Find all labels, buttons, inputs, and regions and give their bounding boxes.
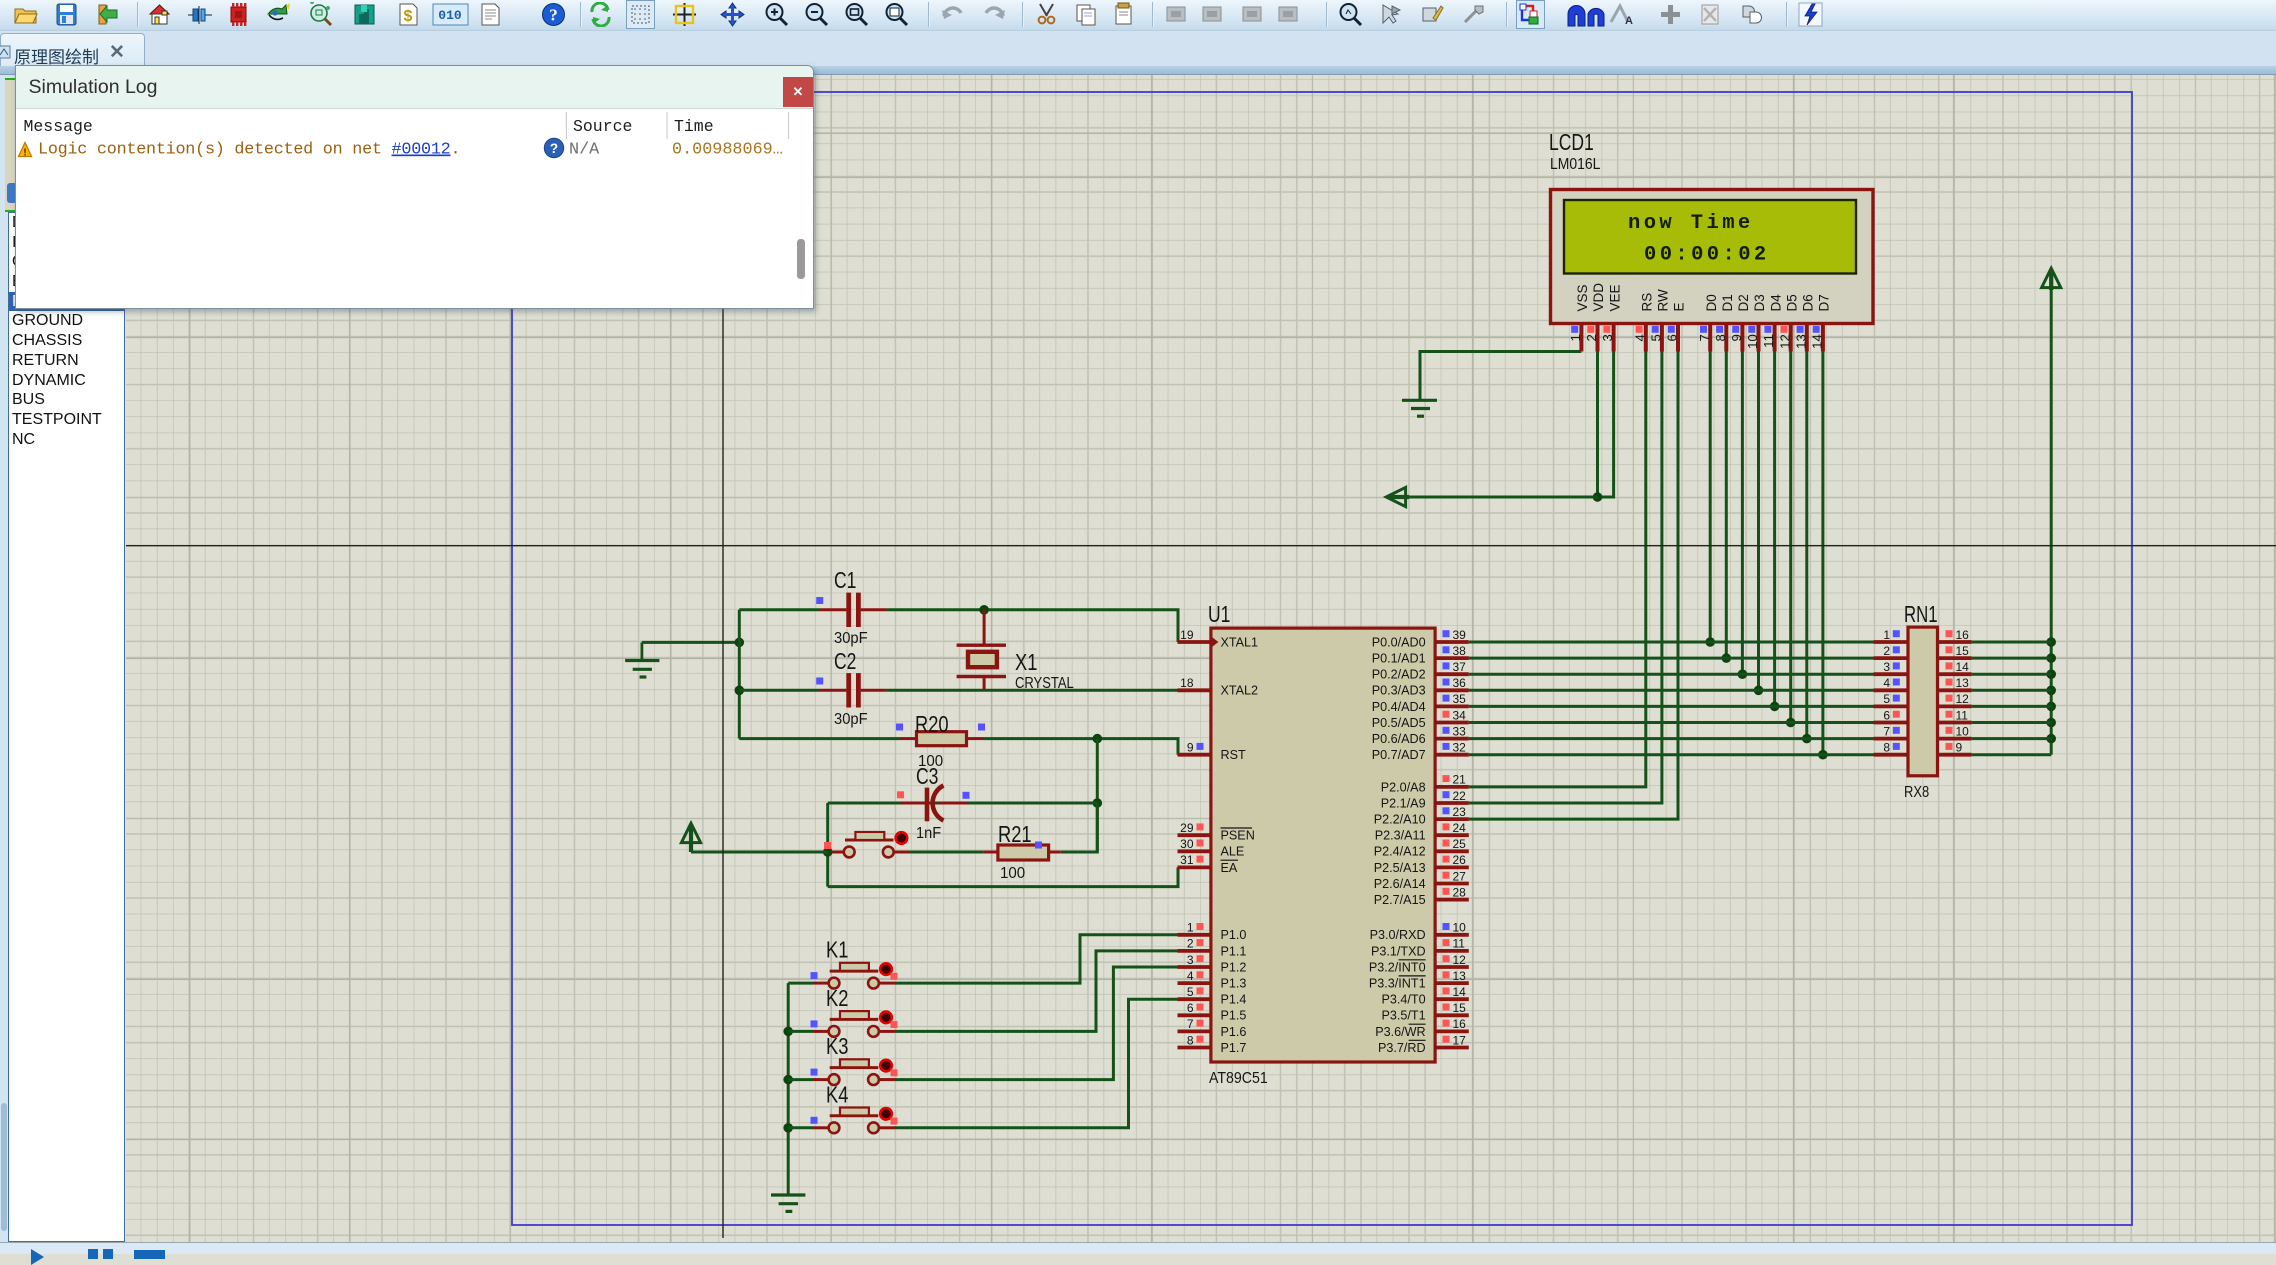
svg-text:XTAL2: XTAL2	[1221, 684, 1259, 698]
svg-text:34: 34	[1453, 708, 1467, 722]
U1 left pin numbers	[1180, 628, 1194, 1048]
svg-text:P1.7: P1.7	[1221, 1041, 1247, 1055]
wire crystal bus vertical (C1/C2/R20 left)	[738, 610, 741, 739]
wire bus to K2	[788, 1030, 813, 1033]
svg-text:4: 4	[1883, 676, 1890, 690]
svg-text:17: 17	[1453, 1033, 1467, 1047]
svg-text:K4: K4	[826, 1081, 849, 1107]
wire EA row	[828, 867, 1178, 886]
svg-text:P0.3/AD3: P0.3/AD3	[1372, 684, 1426, 698]
svg-text:P1.4: P1.4	[1221, 993, 1247, 1007]
wire C2 left lead row	[739, 689, 820, 692]
svg-text:27: 27	[1453, 869, 1467, 883]
push-button K3	[813, 1059, 895, 1085]
svg-text:D6: D6	[1801, 294, 1816, 311]
svg-text:13: 13	[1793, 334, 1808, 349]
push-button K1	[813, 963, 895, 989]
svg-text:Source: Source	[573, 117, 632, 136]
svg-text:P2.5/A13: P2.5/A13	[1374, 861, 1426, 875]
RN1 resistor-network body	[1908, 627, 1938, 776]
svg-text:P2.3/A11: P2.3/A11	[1375, 829, 1426, 843]
wire LCD data pin 8 (D1) down to P0.1 net	[1725, 352, 1728, 659]
crystal X1	[957, 610, 1006, 691]
svg-text:14: 14	[1810, 334, 1825, 349]
svg-text:16: 16	[1453, 1017, 1467, 1031]
wire R21 to RST vertical	[1061, 803, 1098, 852]
svg-text:X1: X1	[1015, 649, 1037, 675]
wire LCD data pin 7 (D0) down to P0.0 net	[1709, 352, 1712, 643]
svg-text:P2.1/A9: P2.1/A9	[1381, 796, 1426, 810]
svg-text:Message: Message	[24, 117, 93, 136]
svg-text:15: 15	[1453, 1001, 1467, 1015]
wire LCD pin1 VSS to ground	[1420, 352, 1581, 400]
svg-text:3: 3	[1600, 334, 1615, 341]
wire LCD data pin 12 (D5) down to P0.5 net	[1789, 352, 1792, 723]
wire P0.7 to RN1 pin 8	[1469, 753, 1874, 756]
svg-text:14: 14	[1453, 985, 1467, 999]
C1 state square	[816, 597, 823, 604]
svg-text:VSS: VSS	[1575, 284, 1590, 311]
POWER terminal arrow (up, RN1 common rail)	[2042, 268, 2061, 290]
svg-text:12: 12	[1777, 334, 1792, 349]
svg-text:RX8: RX8	[1904, 784, 1929, 801]
wire C1 to XTAL1	[886, 610, 1178, 642]
RN1 right pin state squares	[1946, 630, 1953, 750]
svg-text:ALE: ALE	[1221, 845, 1245, 859]
ground symbol (crystal circuit)	[625, 642, 659, 677]
wire R20 left lead row	[739, 737, 900, 740]
node junction RN1 pin 12 on rail	[2046, 702, 2056, 712]
LCD1 pin stubs 1-14	[1581, 322, 1823, 352]
svg-text:12: 12	[1453, 953, 1467, 967]
push-button K4	[813, 1108, 895, 1134]
svg-text:7: 7	[1883, 724, 1890, 738]
node junction key bus / K3	[783, 1075, 793, 1085]
resistor R21	[983, 845, 1060, 860]
node junction key bus / K2	[783, 1027, 793, 1037]
svg-text:8: 8	[1883, 741, 1890, 755]
svg-text:P0.4/AD4: P0.4/AD4	[1372, 700, 1426, 714]
top toolbar	[0, 0, 2276, 31]
C3 state squares	[897, 791, 970, 799]
svg-text:?: ?	[550, 141, 558, 156]
node junction VDD/VEE power rail	[1593, 492, 1603, 502]
tab bar	[0, 31, 2276, 66]
wire C1 left lead row	[739, 608, 820, 611]
capacitor C2	[820, 673, 886, 707]
U1 right pin name labels	[1369, 635, 1426, 1055]
svg-text:K1: K1	[826, 937, 848, 963]
node junction D2 / P0.2	[1738, 669, 1748, 679]
U1 XTAL1 clock input triangle	[1211, 636, 1219, 648]
node junction R20 / RST vertical	[1093, 734, 1103, 744]
wire P0.6 to RN1 pin 7	[1469, 737, 1874, 740]
svg-text:39: 39	[1453, 628, 1467, 642]
svg-text:4: 4	[1632, 334, 1647, 341]
wire LCD pin3 VEE down to power rail	[1598, 352, 1614, 498]
R21 state square	[1035, 842, 1042, 849]
node junction reset button row	[823, 847, 833, 857]
wire K4 to U1 P1	[895, 999, 1178, 1128]
node junction D6 / P0.6	[1802, 734, 1812, 744]
svg-text:3: 3	[1883, 660, 1890, 674]
svg-text:VDD: VDD	[1591, 283, 1606, 312]
svg-text:7: 7	[1187, 1017, 1194, 1031]
svg-text:P3.3/INT1: P3.3/INT1	[1369, 977, 1426, 991]
node junction D3 / P0.3	[1754, 686, 1764, 696]
svg-text:30: 30	[1180, 837, 1194, 851]
svg-text:33: 33	[1453, 724, 1467, 738]
wire P0.3 to RN1 pin 4	[1469, 689, 1874, 692]
capacitor C1	[820, 593, 886, 627]
wire K1 to U1 P1	[895, 935, 1178, 983]
svg-text:RN1: RN1	[1904, 601, 1938, 627]
simulation log dialog	[15, 65, 814, 309]
wire LCD pin5 RW to U1 P2.1	[1469, 352, 1662, 804]
reset button state square	[824, 842, 831, 849]
svg-text:!: !	[23, 148, 26, 159]
svg-text:P1.1: P1.1	[1221, 944, 1247, 958]
svg-text:P1.6: P1.6	[1221, 1025, 1247, 1039]
svg-text:13: 13	[1453, 969, 1467, 983]
wire RST vertical (R20 to C3/R21)	[1096, 739, 1099, 852]
svg-text:C1: C1	[834, 567, 856, 593]
wire LCD data pin 11 (D4) down to P0.4 net	[1773, 352, 1776, 707]
C2 state square	[816, 678, 823, 685]
svg-text:10: 10	[1956, 724, 1970, 738]
wire LCD pin2 VDD down to power rail	[1596, 352, 1599, 498]
svg-text:R21: R21	[998, 821, 1032, 847]
svg-text:RST: RST	[1221, 748, 1246, 762]
svg-text:10: 10	[1453, 921, 1467, 935]
svg-text:7: 7	[1697, 334, 1712, 341]
wire bus to K1	[788, 982, 813, 985]
svg-text:6: 6	[1883, 708, 1890, 722]
svg-text:19: 19	[1180, 628, 1194, 642]
wire key bus vertical	[787, 983, 790, 1194]
svg-text:P0.7/AD7: P0.7/AD7	[1372, 748, 1426, 762]
svg-text:D1: D1	[1720, 294, 1735, 311]
svg-text:P3.2/INT0: P3.2/INT0	[1369, 960, 1426, 974]
RN1 right pin numbers	[1956, 628, 1970, 755]
svg-text:9: 9	[1956, 741, 1963, 755]
svg-text:P0.1/AD1: P0.1/AD1	[1372, 652, 1426, 666]
wire RN1 pin 16 to common rail	[1972, 641, 2052, 644]
wire RN1 pin 10 to common rail	[1972, 737, 2052, 740]
node junction key bus / K4	[783, 1123, 793, 1133]
svg-text:13: 13	[1956, 676, 1970, 690]
svg-text:9: 9	[1729, 334, 1744, 341]
wire K3 to U1 P1	[895, 967, 1178, 1080]
svg-text:P2.0/A8: P2.0/A8	[1381, 780, 1426, 794]
svg-text:RS: RS	[1640, 293, 1655, 312]
svg-text:24: 24	[1453, 821, 1467, 835]
svg-text:30pF: 30pF	[834, 711, 868, 728]
svg-text:EA: EA	[1221, 861, 1238, 875]
svg-text:N/A: N/A	[569, 141, 600, 160]
node junction crystal-bus / ground	[735, 638, 745, 648]
svg-text:AT89C51: AT89C51	[1209, 1070, 1268, 1087]
wire RN1 common vertical rail	[2050, 288, 2053, 755]
svg-text:P1.2: P1.2	[1221, 960, 1247, 974]
svg-text:P1.0: P1.0	[1221, 928, 1247, 942]
wire R20 to RST pin	[983, 739, 1178, 755]
svg-text:1: 1	[1568, 334, 1583, 341]
RN1 right pin stubs 16-9	[1938, 642, 1972, 755]
RN1 left pin stubs 1-8	[1874, 642, 1909, 755]
node junction D5 / P0.5	[1786, 718, 1796, 728]
svg-text:0.00988069…: 0.00988069…	[672, 141, 783, 160]
svg-text:6: 6	[1187, 1001, 1194, 1015]
wire reset button to R21	[910, 851, 983, 854]
svg-text:9: 9	[1187, 741, 1194, 755]
wire RN1 pin 14 to common rail	[1972, 673, 2052, 676]
svg-text:18: 18	[1180, 676, 1194, 690]
resistor R20	[900, 732, 983, 746]
wire K2 to U1 P1	[895, 951, 1178, 1032]
svg-text:D5: D5	[1784, 294, 1799, 311]
svg-text:P0.0/AD0: P0.0/AD0	[1372, 635, 1426, 649]
svg-text:5: 5	[1883, 692, 1890, 706]
wire LCD pin6 E to U1 P2.2	[1469, 352, 1678, 820]
svg-text:6: 6	[1665, 334, 1680, 341]
POWER terminal arrow (reset row)	[681, 823, 700, 852]
svg-text:15: 15	[1956, 644, 1970, 658]
object selector list	[8, 212, 125, 1242]
svg-text:CRYSTAL: CRYSTAL	[1015, 675, 1074, 692]
svg-text:38: 38	[1453, 644, 1467, 658]
node junction RN1 pin 16 on rail	[2046, 637, 2056, 647]
svg-text:11: 11	[1956, 708, 1969, 722]
svg-text:R20: R20	[915, 711, 949, 737]
svg-text:32: 32	[1453, 741, 1467, 755]
svg-text:U1: U1	[1208, 601, 1230, 627]
svg-text:C3: C3	[916, 763, 938, 789]
svg-text:PSEN: PSEN	[1221, 829, 1255, 843]
wire C3 row left	[828, 802, 1098, 805]
sheet horizontal axis line	[126, 545, 2276, 547]
svg-text:00:00:02: 00:00:02	[1644, 244, 1770, 267]
ground symbol (key bus)	[771, 1195, 805, 1211]
svg-text:3: 3	[1187, 953, 1194, 967]
svg-text:D0: D0	[1704, 294, 1719, 311]
R20 state squares	[896, 724, 985, 731]
push-button K2	[813, 1011, 895, 1037]
svg-text:D3: D3	[1752, 294, 1767, 311]
wire LCD data pin 13 (D6) down to P0.6 net	[1805, 352, 1808, 739]
svg-text:1nF: 1nF	[916, 825, 941, 842]
RN1 left pin state squares	[1893, 630, 1900, 750]
LCD1 pin name labels (VSS VDD VEE RS RW E D0-D7, rotated)	[1575, 283, 1832, 312]
wire bus to K3	[788, 1078, 813, 1081]
node junction crystal top	[979, 605, 989, 615]
svg-text:10: 10	[1745, 334, 1760, 349]
wire LCD data pin 10 (D3) down to P0.3 net	[1757, 352, 1760, 691]
wire LCD data pin 14 (D7) down to P0.7 net	[1821, 352, 1824, 755]
svg-text:RW: RW	[1656, 289, 1671, 312]
wire RN1 pin 13 to common rail	[1972, 689, 2052, 692]
svg-text:P2.7/A15: P2.7/A15	[1374, 893, 1426, 907]
wire P0.5 to RN1 pin 6	[1469, 721, 1874, 724]
svg-text:21: 21	[1453, 773, 1467, 787]
svg-text:E: E	[1672, 302, 1687, 311]
U1 left pin name labels	[1221, 635, 1259, 1055]
K2 state squares	[811, 1020, 898, 1028]
svg-text:11: 11	[1453, 937, 1466, 951]
wire P0.4 to RN1 pin 5	[1469, 705, 1874, 708]
node junction D1 / P0.1	[1722, 653, 1732, 663]
U1 right pin state squares	[1443, 630, 1450, 1042]
wire LCD data pin 9 (D2) down to P0.2 net	[1741, 352, 1744, 675]
U1 right pin stubs	[1435, 642, 1469, 1048]
node junction RN1 pin 13 on rail	[2046, 686, 2056, 696]
svg-text:P1.3: P1.3	[1221, 977, 1247, 991]
svg-text:25: 25	[1453, 837, 1467, 851]
svg-text:P2.6/A14: P2.6/A14	[1374, 877, 1426, 891]
U1 right pin numbers	[1453, 628, 1467, 1048]
K1 state squares	[811, 972, 898, 980]
svg-text:31: 31	[1180, 853, 1194, 867]
svg-text:P3.7/RD: P3.7/RD	[1378, 1041, 1426, 1055]
K4 state squares	[811, 1117, 898, 1125]
svg-text:P3.5/T1: P3.5/T1	[1381, 1009, 1425, 1023]
svg-text:100: 100	[1000, 865, 1025, 882]
svg-text:35: 35	[1453, 692, 1467, 706]
wire LCD pin4 RS to U1 P2.0	[1469, 352, 1646, 787]
svg-text:8: 8	[1713, 334, 1728, 341]
K3 state squares	[811, 1069, 898, 1077]
svg-text:5: 5	[1187, 985, 1194, 999]
left column	[0, 75, 126, 1242]
POWER terminal arrow (left pointing)	[1386, 487, 1409, 506]
svg-text:36: 36	[1453, 676, 1467, 690]
svg-text:2: 2	[1187, 937, 1194, 951]
svg-text:D7: D7	[1817, 294, 1832, 311]
wire RN1 pin 12 to common rail	[1972, 705, 2052, 708]
svg-text:VEE: VEE	[1607, 284, 1622, 311]
svg-text:2: 2	[1584, 334, 1599, 341]
svg-text:now Time: now Time	[1628, 212, 1754, 235]
svg-text:LM016L: LM016L	[1550, 156, 1600, 173]
wire POWER terminal to reset button	[691, 851, 828, 854]
svg-text:XTAL1: XTAL1	[1221, 635, 1259, 649]
node junction C3 right	[1093, 798, 1103, 808]
wire RN1 pin 15 to common rail	[1972, 657, 2052, 660]
wire bus to K4	[788, 1126, 813, 1129]
capacitor C3 (1nF)	[900, 786, 967, 822]
status bar	[0, 1242, 2276, 1254]
svg-text:D2: D2	[1736, 294, 1751, 311]
wire P0.2 to RN1 pin 3	[1469, 673, 1874, 676]
svg-text:P3.1/TXD: P3.1/TXD	[1371, 944, 1426, 958]
wire P0.0 to RN1 pin 1	[1469, 641, 1874, 644]
wire RN1 pin 9 to common rail	[1972, 753, 2052, 756]
LCD1 pin logic-state squares	[1571, 326, 1820, 333]
svg-text:P2.4/A12: P2.4/A12	[1374, 845, 1426, 859]
LCD1 screen	[1564, 200, 1856, 274]
LCD1 module body	[1551, 190, 1874, 324]
svg-text:29: 29	[1180, 821, 1194, 835]
U1 left pin state squares	[1197, 743, 1204, 1043]
svg-text:12: 12	[1956, 692, 1970, 706]
svg-text:30pF: 30pF	[834, 630, 868, 647]
wire C3 left vertical	[826, 803, 829, 887]
node junction RN1 pin 15 on rail	[2046, 653, 2056, 663]
svg-text:P3.0/RXD: P3.0/RXD	[1370, 928, 1426, 942]
node junction crystal-bus / C2 row	[735, 686, 745, 696]
svg-text:LCD1: LCD1	[1549, 129, 1594, 155]
svg-text:Logic contention(s) detected o: Logic contention(s) detected on net #000…	[38, 141, 460, 160]
svg-text:14: 14	[1956, 660, 1970, 674]
LCD1 pin numbers 1-14 (rotated)	[1568, 334, 1825, 349]
svg-text:4: 4	[1187, 969, 1194, 983]
node junction D0 / P0.0	[1705, 637, 1715, 647]
svg-text:37: 37	[1453, 660, 1467, 674]
U1 left pin stubs	[1178, 642, 1211, 1048]
sheet border frame	[512, 92, 2132, 1225]
svg-text:28: 28	[1453, 885, 1467, 899]
svg-text:1: 1	[1883, 628, 1890, 642]
sheet vertical axis line	[722, 92, 724, 1238]
wire power rail to POWER terminal	[1404, 496, 1598, 499]
wire P0.1 to RN1 pin 2	[1469, 657, 1874, 660]
svg-text:5: 5	[1649, 334, 1664, 341]
wire RN1 pin 11 to common rail	[1972, 721, 2052, 724]
svg-text:K3: K3	[826, 1033, 848, 1059]
svg-text:C2: C2	[834, 648, 856, 674]
node junction RN1 pin 11 on rail	[2046, 718, 2056, 728]
svg-text:16: 16	[1956, 628, 1970, 642]
svg-text:11: 11	[1761, 334, 1776, 348]
svg-text:P0.6/AD6: P0.6/AD6	[1372, 732, 1426, 746]
svg-text:P3.6/WR: P3.6/WR	[1375, 1025, 1425, 1039]
svg-text:23: 23	[1453, 805, 1467, 819]
node junction RN1 pin 14 on rail	[2046, 669, 2056, 679]
svg-text:22: 22	[1453, 789, 1467, 803]
svg-text:P0.2/AD2: P0.2/AD2	[1372, 668, 1426, 682]
schematic canvas with grid	[0, 66, 2276, 75]
svg-text:2: 2	[1883, 644, 1890, 658]
op-amp?? no: U1 MCU body	[1211, 628, 1435, 1062]
svg-text:1: 1	[1187, 921, 1194, 935]
wire C2 to XTAL2	[886, 689, 1177, 692]
RN1 left pin numbers	[1883, 628, 1890, 755]
svg-text:P0.5/AD5: P0.5/AD5	[1372, 716, 1426, 730]
svg-text:D4: D4	[1768, 294, 1783, 312]
svg-text:P2.2/A10: P2.2/A10	[1374, 813, 1426, 827]
svg-text:P1.5: P1.5	[1221, 1009, 1247, 1023]
svg-text:K2: K2	[826, 985, 848, 1011]
svg-text:Time: Time	[674, 117, 714, 136]
svg-text:26: 26	[1453, 853, 1467, 867]
ground symbol (LCD VSS)	[1402, 400, 1437, 416]
svg-text:8: 8	[1187, 1033, 1194, 1047]
push-button (reset)	[832, 832, 910, 857]
node junction D7 / P0.7	[1818, 750, 1828, 760]
node junction RN1 pin 10 on rail	[2046, 734, 2056, 744]
svg-text:P3.4/T0: P3.4/T0	[1381, 993, 1425, 1007]
node junction D4 / P0.4	[1770, 702, 1780, 712]
wire ground to crystal bus	[642, 641, 739, 644]
